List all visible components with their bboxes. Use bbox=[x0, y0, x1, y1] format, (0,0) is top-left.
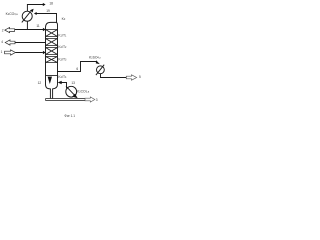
row B line (stream 4) bbox=[15, 42, 46, 44]
open arrow stream 3 (right) bbox=[85, 97, 95, 102]
arrowhead into column bbox=[58, 81, 62, 84]
row A line (streams 2 / 11) bbox=[15, 29, 43, 31]
arrowhead into cooler bbox=[34, 12, 37, 15]
svg-text:12: 12 bbox=[38, 81, 42, 85]
svg-text:K0: K0 bbox=[62, 17, 66, 21]
svg-text:K2/T2: K2/T2 bbox=[58, 45, 67, 49]
svg-text:19: 19 bbox=[46, 9, 50, 13]
cooler outlet down bbox=[26, 21, 28, 29]
row C line (stream 1) bbox=[15, 52, 43, 54]
cooler diagonal arrow bbox=[22, 11, 31, 22]
svg-text:13: 13 bbox=[71, 81, 75, 85]
pump diagonal arrow bbox=[66, 86, 75, 95]
svg-text:K4/T4: K4/T4 bbox=[58, 75, 67, 79]
packing section 1 (X box) bbox=[46, 30, 58, 37]
svg-text:3: 3 bbox=[96, 98, 98, 102]
open arrow stream 5 (right) bbox=[126, 75, 136, 80]
packing section 3 (X box) bbox=[46, 48, 58, 55]
valve diagonal bbox=[96, 65, 104, 75]
column K0 shell bbox=[46, 22, 58, 98]
svg-text:11: 11 bbox=[36, 24, 40, 28]
cooler X1 circle bbox=[22, 11, 32, 21]
open arrow stream 2 (left) bbox=[5, 28, 15, 33]
svg-text:K2CO3,a: K2CO3,a bbox=[77, 89, 90, 93]
open arrow stream 4 (left) bbox=[5, 40, 15, 45]
svg-text:5: 5 bbox=[139, 75, 141, 79]
svg-text:K2SO4,x: K2SO4,x bbox=[89, 55, 102, 59]
stream 18 line up/out bbox=[27, 5, 43, 12]
svg-text:K3/T3: K3/T3 bbox=[58, 57, 67, 61]
pump X3 circle bbox=[66, 86, 77, 97]
stream 6 line to valve bbox=[58, 62, 97, 72]
svg-text:1: 1 bbox=[1, 50, 3, 54]
arrowhead 18 bbox=[43, 3, 46, 6]
bottoms pipe (double line) bbox=[46, 99, 86, 101]
overhead vapor pipe bbox=[37, 14, 57, 23]
open arrow stream 1 (right) bbox=[5, 50, 16, 55]
svg-text:2: 2 bbox=[2, 28, 4, 32]
distributor tray line bbox=[46, 75, 58, 77]
packing section 2 (X box) bbox=[46, 39, 58, 46]
valve outlet to stream 5 bbox=[101, 74, 127, 78]
svg-text:4: 4 bbox=[1, 40, 3, 44]
arrowhead into valve bbox=[96, 60, 100, 64]
svg-text:18: 18 bbox=[49, 1, 53, 5]
packing section 4 (X box) bbox=[46, 57, 58, 63]
svg-text:Фиг 1.1: Фиг 1.1 bbox=[64, 114, 75, 118]
internal down arrow 12 bbox=[48, 77, 52, 84]
svg-text:6: 6 bbox=[76, 67, 78, 71]
arrowhead 11 into column bbox=[43, 28, 46, 31]
valve X2 circle bbox=[97, 66, 105, 74]
svg-text:K1/T1: K1/T1 bbox=[58, 33, 67, 37]
arrowhead into column bbox=[43, 51, 46, 54]
reflux line into column bottom bbox=[62, 83, 67, 89]
svg-text:K2CO3,a: K2CO3,a bbox=[6, 12, 19, 16]
